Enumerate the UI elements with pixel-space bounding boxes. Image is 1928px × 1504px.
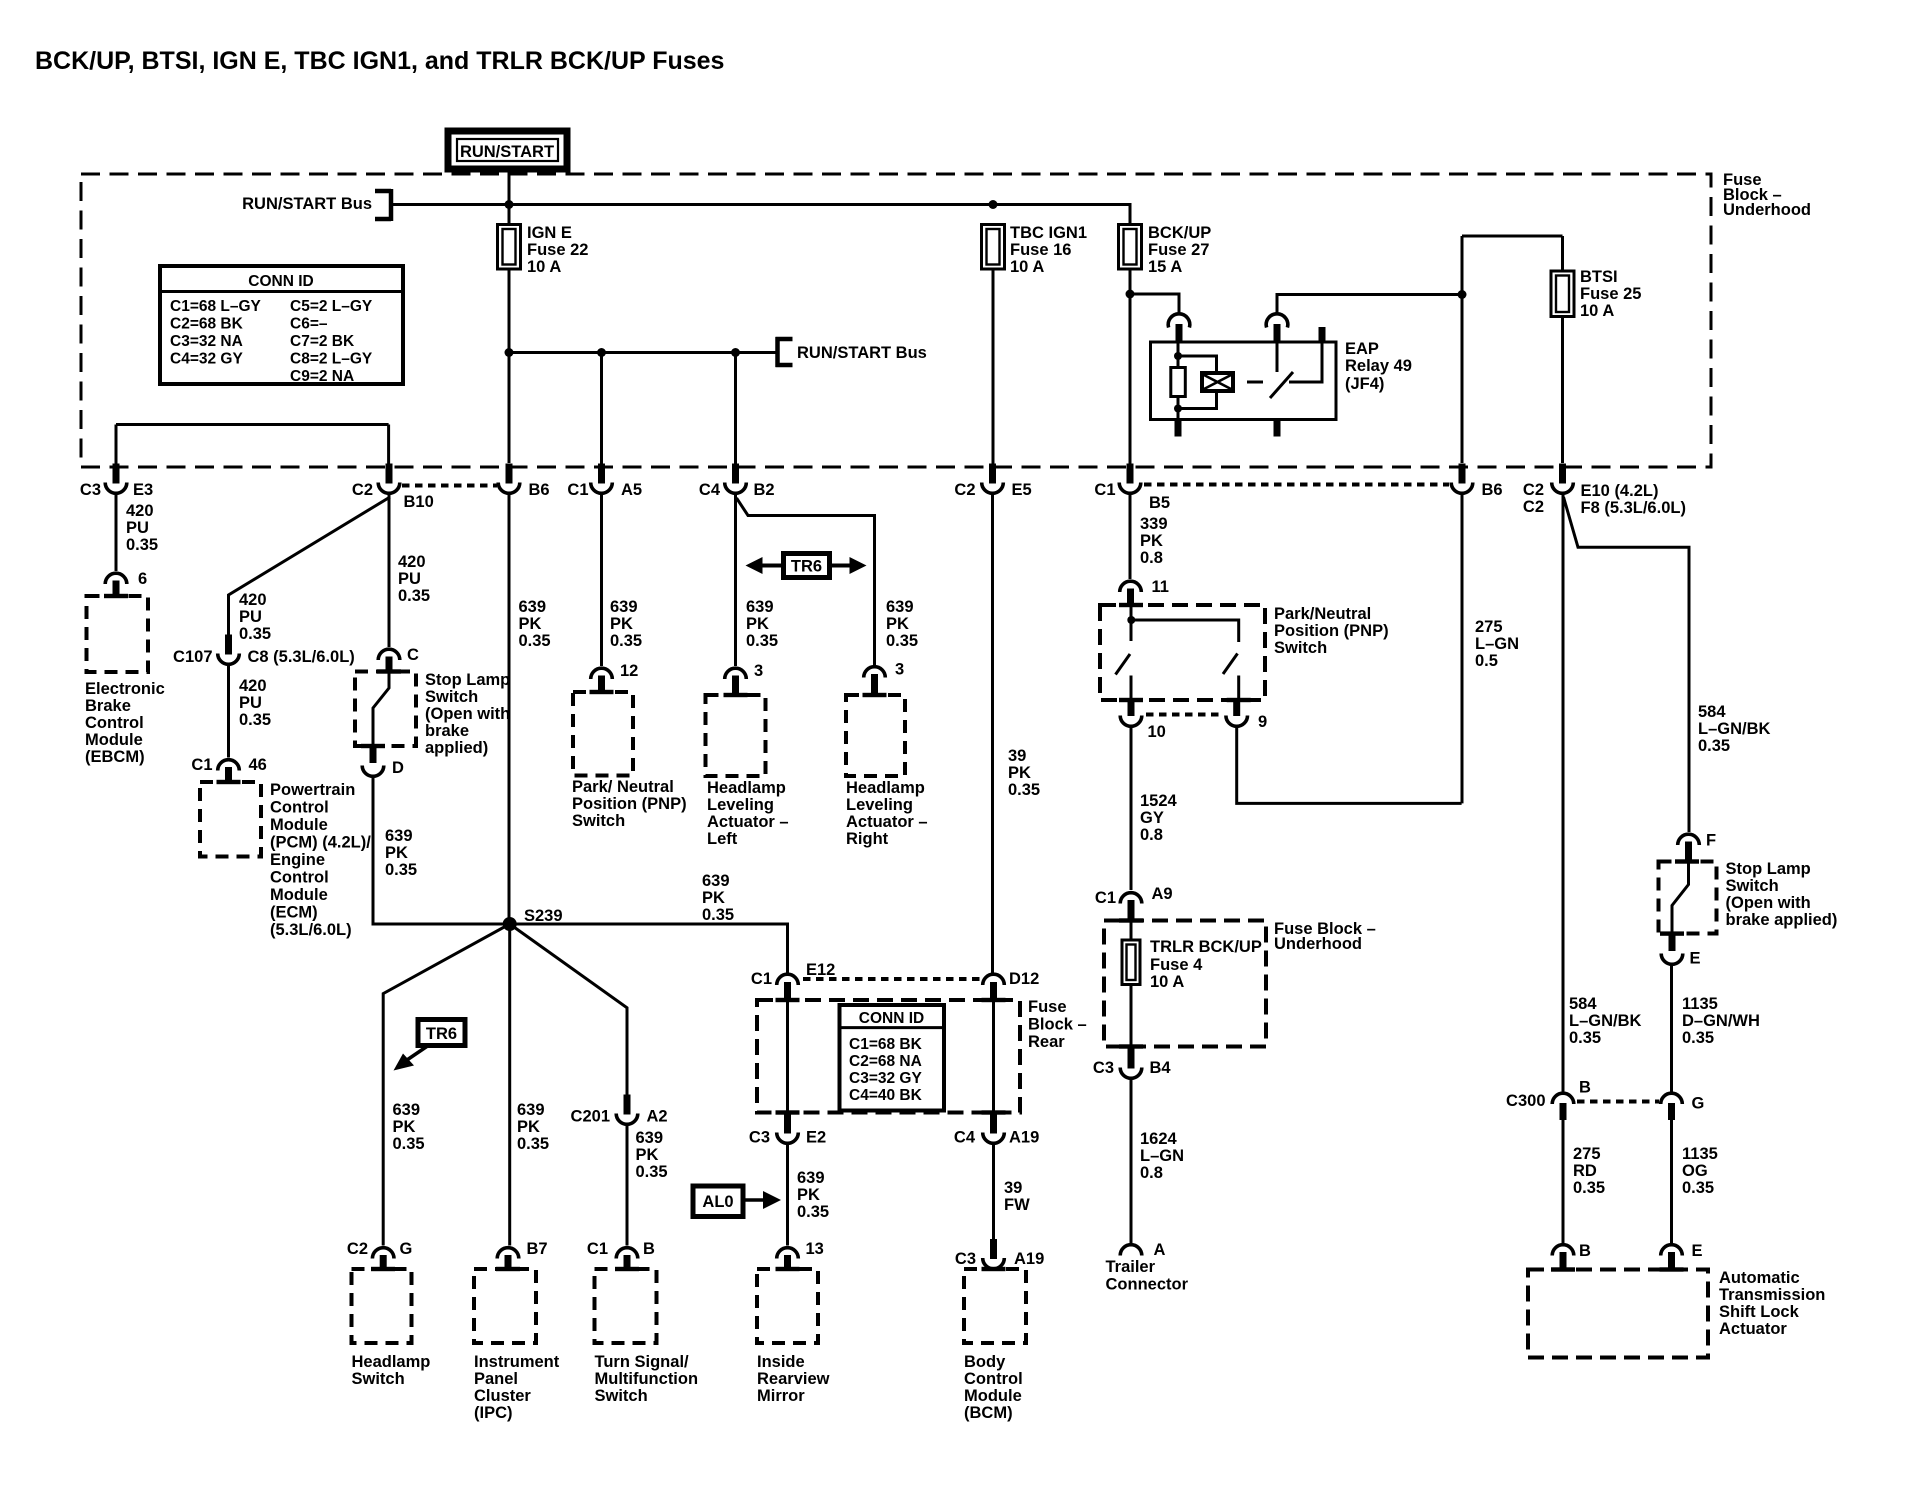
connector C2/E5 [954,464,1031,500]
svg-text:RD: RD [1573,1162,1597,1180]
svg-text:Fuse 22: Fuse 22 [527,241,588,259]
svg-text:B6: B6 [1482,481,1503,499]
svg-text:B6: B6 [529,481,550,499]
dotted link C300 [1577,1100,1659,1104]
svg-text:639: 639 [385,827,413,845]
wire BTSI riser [1462,236,1563,272]
relay switch output [1289,342,1322,382]
svg-text:B: B [1579,1079,1591,1097]
svg-text:0.35: 0.35 [1008,781,1040,799]
svg-text:Fuse 27: Fuse 27 [1148,241,1209,259]
connector C1/B turn signal [587,1240,655,1270]
svg-text:C107: C107 [173,648,212,666]
svg-text:GY: GY [1140,809,1164,827]
node PNP [1127,616,1135,624]
wire B2 to headlamp left [734,495,737,666]
fuse TBC IGN1 Fuse 16 10A [982,224,1088,276]
node bus/TBC IGN1 [989,200,998,209]
fuse block underhood 2 box [1104,921,1266,1047]
ATSLA box [1528,1270,1708,1358]
svg-text:C1: C1 [1095,889,1116,907]
wire B10 diagonal to C107 [229,497,391,636]
PNP switch box [1100,605,1265,700]
wire A5 to PNP small [600,495,603,666]
wire internal link E3 B10 [116,425,389,466]
turn signal box [595,1269,657,1343]
relay solenoid loop [1178,356,1217,409]
connector E ATSLA [1661,1242,1703,1271]
node relay coil bottom [1174,405,1182,413]
connector 11 PNP [1120,578,1169,606]
svg-text:Module: Module [270,816,328,834]
svg-text:Stop Lamp: Stop Lamp [425,671,510,689]
svg-text:275: 275 [1475,618,1503,636]
svg-text:Instrument: Instrument [474,1353,560,1371]
svg-text:Cluster: Cluster [474,1387,531,1405]
svg-text:B10: B10 [404,493,434,511]
IPC box [474,1269,536,1343]
wire B5 to pin 11 [1129,495,1132,579]
wire main bus [393,205,1130,227]
svg-text:Switch: Switch [595,1387,648,1405]
svg-text:10: 10 [1148,723,1166,741]
svg-text:B: B [1579,1242,1591,1260]
svg-text:C1=68 BK: C1=68 BK [849,1036,923,1053]
svg-text:Switch: Switch [1274,639,1327,657]
svg-text:A5: A5 [621,481,642,499]
svg-text:C4: C4 [699,481,721,499]
BCM box [964,1269,1026,1343]
svg-text:C3: C3 [1093,1059,1114,1077]
fuse BTSI Fuse 25 10A [1551,268,1641,320]
connector A trailer [1106,1241,1189,1294]
svg-text:Switch: Switch [572,812,625,830]
svg-text:(ECM): (ECM) [270,904,318,922]
svg-text:Control: Control [270,869,329,887]
svg-text:15 A: 15 A [1148,258,1182,276]
svg-text:0.35: 0.35 [1569,1029,1601,1047]
connector C1/A9 [1095,885,1173,922]
svg-text:1524: 1524 [1140,792,1178,810]
svg-text:0.35: 0.35 [239,711,271,729]
relay pin 2 [1274,324,1281,343]
relay terminal arc 1 [1168,314,1190,328]
svg-text:0.35: 0.35 [385,861,417,879]
svg-text:39: 39 [1004,1179,1022,1197]
svg-text:639: 639 [636,1129,664,1147]
PNP switch arm left [1116,654,1131,675]
svg-text:C2: C2 [1523,498,1544,516]
splice S239 [503,917,517,931]
svg-text:Relay 49: Relay 49 [1345,357,1412,375]
svg-text:Brake: Brake [85,697,131,715]
svg-text:0.35: 0.35 [1682,1029,1714,1047]
svg-text:C6=–: C6=– [290,316,328,333]
svg-text:OG: OG [1682,1162,1708,1180]
wire second bus [509,351,777,354]
stop lamp switch 1 box [355,672,416,747]
svg-text:Module: Module [85,731,143,749]
svg-text:(Open with: (Open with [1726,894,1811,912]
svg-text:Fuse 4: Fuse 4 [1150,956,1203,974]
svg-text:Powertrain: Powertrain [270,781,355,799]
svg-text:Fuse 16: Fuse 16 [1010,241,1071,259]
wire E10/F8 branch to F [1564,497,1690,832]
svg-text:(BCM): (BCM) [964,1404,1013,1422]
svg-text:C3: C3 [80,481,101,499]
svg-text:39: 39 [1008,747,1026,765]
connector B ATSLA [1552,1242,1591,1271]
svg-text:0.35: 0.35 [610,632,642,650]
svg-text:L–GN/BK: L–GN/BK [1698,720,1771,738]
fuse block rear box [757,1000,1020,1113]
connector 3 headlamp right [864,661,904,696]
connector 3 headlamp left [725,662,763,696]
svg-text:E3: E3 [133,481,153,499]
svg-text:PK: PK [1008,764,1031,782]
svg-text:C2: C2 [347,1240,368,1258]
svg-text:Position (PNP): Position (PNP) [572,795,687,813]
svg-text:BCK/UP, BTSI, IGN E, TBC IGN1,: BCK/UP, BTSI, IGN E, TBC IGN1, and TRLR … [35,47,724,75]
svg-text:TRLR BCK/UP: TRLR BCK/UP [1150,938,1262,956]
relay bottom pin B [1274,420,1281,437]
svg-text:PU: PU [239,694,262,712]
svg-text:E5: E5 [1012,481,1032,499]
svg-text:C5=2 L–GY: C5=2 L–GY [290,298,373,315]
TR6 double arrow [746,554,867,578]
node second bus IGN E [505,348,514,357]
svg-text:Headlamp: Headlamp [846,779,925,797]
svg-text:C1: C1 [1094,481,1115,499]
svg-text:0.8: 0.8 [1140,826,1163,844]
svg-text:10 A: 10 A [1580,302,1614,320]
svg-text:Underhood: Underhood [1274,935,1362,953]
svg-text:C201: C201 [571,1108,610,1126]
wire B6 to 275 [1461,495,1464,803]
svg-text:B: B [643,1240,655,1258]
connector 6 EBCM [105,570,147,597]
svg-text:C1: C1 [567,481,588,499]
svg-text:10 A: 10 A [527,258,561,276]
svg-text:TBC IGN1: TBC IGN1 [1010,224,1087,242]
svg-text:584: 584 [1569,995,1597,1013]
connector C2/G headlamp switch [347,1240,412,1270]
svg-text:IGN E: IGN E [527,224,572,242]
wire RUN/START to fuse IGN E [508,169,511,226]
wire E3 to EBCM [115,495,118,571]
wire E to C300 G [1670,965,1673,1092]
svg-text:Module: Module [270,886,328,904]
svg-text:F: F [1706,832,1716,850]
node BCK/UP branch [1126,290,1135,299]
svg-text:C9=2 NA: C9=2 NA [290,368,354,385]
wire BCK/UP fuse to junction [1129,269,1132,465]
connector C4/B2 [699,464,775,500]
svg-text:PK: PK [1140,532,1163,550]
RUN/START power box [448,131,567,169]
svg-text:0.35: 0.35 [797,1203,829,1221]
svg-text:C1: C1 [191,756,212,774]
node second bus B2 [731,348,740,357]
svg-text:Control: Control [85,714,144,732]
connector D12 [983,970,1040,1001]
svg-text:C2: C2 [352,481,373,499]
svg-text:(JF4): (JF4) [1345,375,1384,393]
stop lamp switch 1 contacts [373,672,389,747]
svg-text:Connector: Connector [1106,1276,1189,1294]
svg-text:Electronic: Electronic [85,680,165,698]
svg-text:C8 (5.3L/6.0L): C8 (5.3L/6.0L) [248,648,355,666]
svg-text:Trailer: Trailer [1106,1258,1156,1276]
wire C2 to C300 B [1562,495,1565,1092]
svg-text:Inside: Inside [757,1353,805,1371]
relay pin 1 [1176,324,1183,343]
svg-text:639: 639 [746,598,774,616]
wire pin 10 to A9 [1130,727,1133,890]
svg-text:Mirror: Mirror [757,1387,805,1405]
svg-text:A19: A19 [1009,1129,1039,1147]
svg-text:PK: PK [517,1118,540,1136]
svg-text:B2: B2 [754,481,775,499]
connector C1/E12 [751,961,835,1001]
svg-text:46: 46 [249,756,267,774]
svg-text:Left: Left [707,830,738,848]
svg-text:A: A [1154,1241,1166,1259]
relay coil branch [1177,342,1180,368]
svg-text:C1: C1 [751,970,772,988]
connector B6 right [1451,464,1502,500]
svg-text:C1=68 L–GY: C1=68 L–GY [170,298,262,315]
svg-text:Module: Module [964,1387,1022,1405]
svg-text:1135: 1135 [1682,1145,1718,1163]
svg-text:C7=2 BK: C7=2 BK [290,333,355,350]
connector C2/B10 [352,464,434,512]
svg-text:C3: C3 [749,1129,770,1147]
svg-text:C: C [407,646,419,664]
svg-text:639: 639 [610,598,638,616]
connector B6 [498,464,549,500]
svg-text:Underhood: Underhood [1723,201,1811,219]
connector 9 [1226,699,1267,731]
fuse BCK/UP Fuse 27 15A [1119,224,1212,276]
svg-text:(PCM) (4.2L)/: (PCM) (4.2L)/ [270,834,371,852]
svg-text:1135: 1135 [1682,995,1718,1013]
svg-text:Rear: Rear [1028,1033,1065,1051]
svg-text:Headlamp: Headlamp [707,779,786,797]
svg-text:D12: D12 [1009,970,1039,988]
wire C300 B to ATSLA [1562,1118,1565,1243]
connector C3/E2 [749,1114,826,1147]
PNP switch arm right [1223,654,1238,675]
PNP switch small box [573,692,633,776]
svg-text:10 A: 10 A [1010,258,1044,276]
headlamp switch box [352,1269,412,1343]
svg-text:C4=40 BK: C4=40 BK [849,1087,923,1104]
svg-text:B7: B7 [527,1240,548,1258]
svg-text:0.5: 0.5 [1475,652,1498,670]
svg-text:Shift Lock: Shift Lock [1719,1303,1800,1321]
wire B6 right column [1461,236,1464,463]
connector 13 mirror [777,1240,824,1270]
stop lamp switch 2 contacts [1672,862,1689,934]
svg-text:Control: Control [270,799,329,817]
svg-text:639: 639 [702,872,730,890]
svg-text:Multifunction: Multifunction [595,1370,699,1388]
RUN/START Bus bracket right [776,337,927,367]
svg-text:C4: C4 [954,1129,976,1147]
connector C300 G [1661,1093,1705,1120]
svg-text:brake: brake [425,722,469,740]
relay terminal arc 2 [1266,314,1288,328]
relay coil bottom [1177,396,1180,420]
svg-text:Automatic: Automatic [1719,1269,1800,1287]
relay switch contact [1276,343,1279,372]
svg-text:11: 11 [1152,578,1169,596]
svg-text:C1: C1 [587,1240,608,1258]
svg-text:C3=32 GY: C3=32 GY [849,1070,922,1087]
svg-text:L–GN/BK: L–GN/BK [1569,1012,1642,1030]
svg-text:0.35: 0.35 [239,625,271,643]
fuse IGN E Fuse 22 10A [498,224,589,276]
wire B6 to S239 [508,495,511,924]
wire D to S239 [373,777,510,924]
svg-text:PK: PK [746,615,769,633]
wire TRLR fuse to C3/B4 [1130,985,1133,1049]
svg-text:C2=68 BK: C2=68 BK [170,316,244,333]
svg-text:(5.3L/6.0L): (5.3L/6.0L) [270,921,352,939]
svg-text:275: 275 [1573,1145,1601,1163]
relay solenoid X box [1202,373,1233,391]
connector C3/B4 [1093,1049,1172,1079]
relay actuation dash [1247,381,1263,384]
svg-text:PU: PU [398,570,421,588]
connector C2 C2/E10 F8 [1523,464,1686,518]
dotted link B10 B6 [402,484,497,488]
svg-text:C2: C2 [1523,481,1544,499]
svg-text:brake applied): brake applied) [1726,911,1838,929]
svg-text:PU: PU [126,519,149,537]
svg-text:A9: A9 [1152,885,1173,903]
svg-text:RUN/START: RUN/START [460,143,554,161]
dotted link 10 9 [1146,713,1222,717]
svg-text:0.35: 0.35 [519,632,551,650]
wire E12 through fuse block rear [786,1001,789,1114]
svg-text:applied): applied) [425,739,488,757]
svg-text:639: 639 [393,1101,421,1119]
svg-text:0.35: 0.35 [746,632,778,650]
svg-text:0.35: 0.35 [393,1135,425,1153]
svg-text:0.35: 0.35 [886,632,918,650]
wire pin 9 to 275 wire [1237,727,1462,803]
svg-text:B4: B4 [1150,1059,1172,1077]
box pin tabs [104,594,1699,1272]
svg-text:Block –: Block – [1028,1016,1087,1034]
svg-text:CONN ID: CONN ID [248,273,313,290]
wire IGN E fuse down to B6 [508,269,511,463]
svg-text:339: 339 [1140,515,1168,533]
wire B2 drop [734,353,737,466]
svg-text:F8 (5.3L/6.0L): F8 (5.3L/6.0L) [1581,499,1686,517]
svg-text:D: D [392,759,404,777]
svg-text:S239: S239 [524,907,563,925]
svg-text:Body: Body [964,1353,1006,1371]
connector C300 B [1506,1079,1591,1121]
svg-text:Transmission: Transmission [1719,1286,1825,1304]
wire S239 to C201 [510,924,627,1096]
relay pin 3 stub [1319,327,1326,343]
svg-text:(IPC): (IPC) [474,1404,513,1422]
connector C3/A19 BCM [955,1239,1044,1269]
dotted link E12 D12 [803,977,980,981]
connector C stop lamp switch [378,646,419,673]
svg-text:0.35: 0.35 [126,536,158,554]
wire B2 branch to right actuator [737,498,875,665]
svg-text:Stop Lamp: Stop Lamp [1726,860,1811,878]
svg-text:0.8: 0.8 [1140,549,1163,567]
wire E5 to D12 [991,495,994,973]
svg-text:420: 420 [398,553,426,571]
connector B7 IPC [497,1240,547,1270]
svg-text:12: 12 [620,662,638,680]
connector 12 PNP [591,662,639,693]
svg-text:A2: A2 [647,1108,668,1126]
svg-text:AL0: AL0 [702,1193,733,1211]
svg-text:0.35: 0.35 [398,587,430,605]
connector C4/A19 [954,1114,1039,1147]
fuse TRLR BCK/UP Fuse 4 10A [1122,938,1262,991]
PCM box [200,782,261,857]
svg-text:639: 639 [797,1169,825,1187]
dotted link B5 B6 [1144,483,1449,487]
svg-text:Engine: Engine [270,851,325,869]
svg-text:C3: C3 [955,1250,976,1268]
wire S239 to IPC [508,924,511,1246]
node bus/IGN E [505,200,514,209]
svg-text:E10 (4.2L): E10 (4.2L) [1581,482,1659,500]
svg-text:BTSI: BTSI [1580,268,1618,286]
svg-text:0.35: 0.35 [517,1135,549,1153]
node relay coil top [1174,352,1182,360]
wire C201 to turn signal [626,1125,629,1246]
wire B4 to trailer [1130,1080,1133,1243]
svg-text:10 A: 10 A [1150,973,1184,991]
wire relay feed left [1130,294,1179,314]
svg-text:13: 13 [806,1240,824,1258]
svg-text:0.35: 0.35 [1573,1179,1605,1197]
svg-text:9: 9 [1258,713,1267,731]
wire S239 to headlamp switch [383,924,510,1246]
TR6 flag [394,1020,466,1071]
svg-text:(EBCM): (EBCM) [85,748,145,766]
svg-text:420: 420 [239,677,267,695]
connector C107/C8 [173,635,355,667]
svg-text:PK: PK [797,1186,820,1204]
connector E stop lamp switch 2 [1661,933,1700,968]
svg-text:Leveling: Leveling [707,796,774,814]
wire BTSI fuse to C2 connector [1561,317,1564,464]
wire A5 drop [600,353,603,466]
svg-text:PK: PK [519,615,542,633]
svg-text:G: G [400,1240,413,1258]
svg-text:C3=32 NA: C3=32 NA [170,333,243,350]
svg-text:L–GN: L–GN [1140,1147,1184,1165]
svg-text:C8=2 L–GY: C8=2 L–GY [290,351,373,368]
svg-text:639: 639 [517,1101,545,1119]
wire B10 to stop lamp switch [388,495,391,647]
svg-text:Actuator –: Actuator – [846,813,928,831]
node BTSI branch [1458,290,1467,299]
svg-text:A19: A19 [1014,1250,1044,1268]
